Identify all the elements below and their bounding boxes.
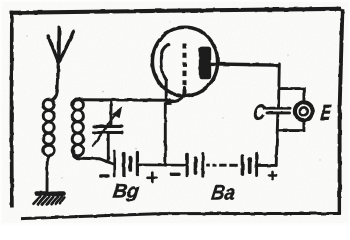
antenna bbox=[48, 28, 74, 100]
battery Ba left cells bbox=[187, 153, 203, 176]
coil L2 (secondary tuning coil) bbox=[72, 99, 83, 156]
wire (Bg to Ba) bbox=[139, 163, 186, 166]
polarity plus (Bg right) bbox=[148, 173, 157, 182]
wire (right riser upper) bbox=[277, 64, 281, 107]
ground bbox=[34, 194, 65, 205]
wire (Ba middle, dashed) bbox=[206, 164, 239, 167]
variable capacitor (tuning) bbox=[93, 102, 122, 160]
triode tube V1: envelope bbox=[152, 27, 217, 96]
polarity plus (Ba right) bbox=[269, 172, 276, 179]
wire junction (grid node) bbox=[166, 99, 171, 104]
wire (phone branch top) bbox=[279, 89, 304, 101]
wire L1 to ground bbox=[47, 155, 51, 192]
wire (tuned circuit top: L2 to grid junction) bbox=[73, 100, 169, 104]
wire (filament lead) bbox=[165, 80, 168, 102]
capacitor C plates bbox=[266, 108, 290, 113]
coil L1 (antenna coil) bbox=[43, 99, 54, 155]
wire (Ba to right riser) bbox=[258, 164, 276, 167]
polarity minus (Ba left) bbox=[171, 173, 179, 176]
wire (grid lead) bbox=[171, 88, 185, 101]
tube filament bbox=[161, 45, 169, 80]
battery Bg bbox=[114, 151, 137, 176]
battery Ba right cells bbox=[242, 154, 256, 176]
svg-text:Bg: Bg bbox=[112, 180, 141, 202]
wire (right riser lower) bbox=[276, 114, 278, 165]
svg-text:Ba: Ba bbox=[210, 181, 236, 204]
tube plate (anode) bbox=[199, 47, 211, 80]
tube grid (dashed) bbox=[183, 44, 187, 98]
wire (tuned circuit bottom: L2 to battery bus) bbox=[73, 151, 113, 164]
wire (junction down to battery bus) bbox=[165, 100, 170, 165]
polarity minus (Bg left) bbox=[101, 174, 108, 177]
wire (plate lead to right corner) bbox=[209, 64, 278, 65]
wire (phone branch bottom) bbox=[278, 122, 304, 130]
earphone E bbox=[295, 102, 313, 120]
